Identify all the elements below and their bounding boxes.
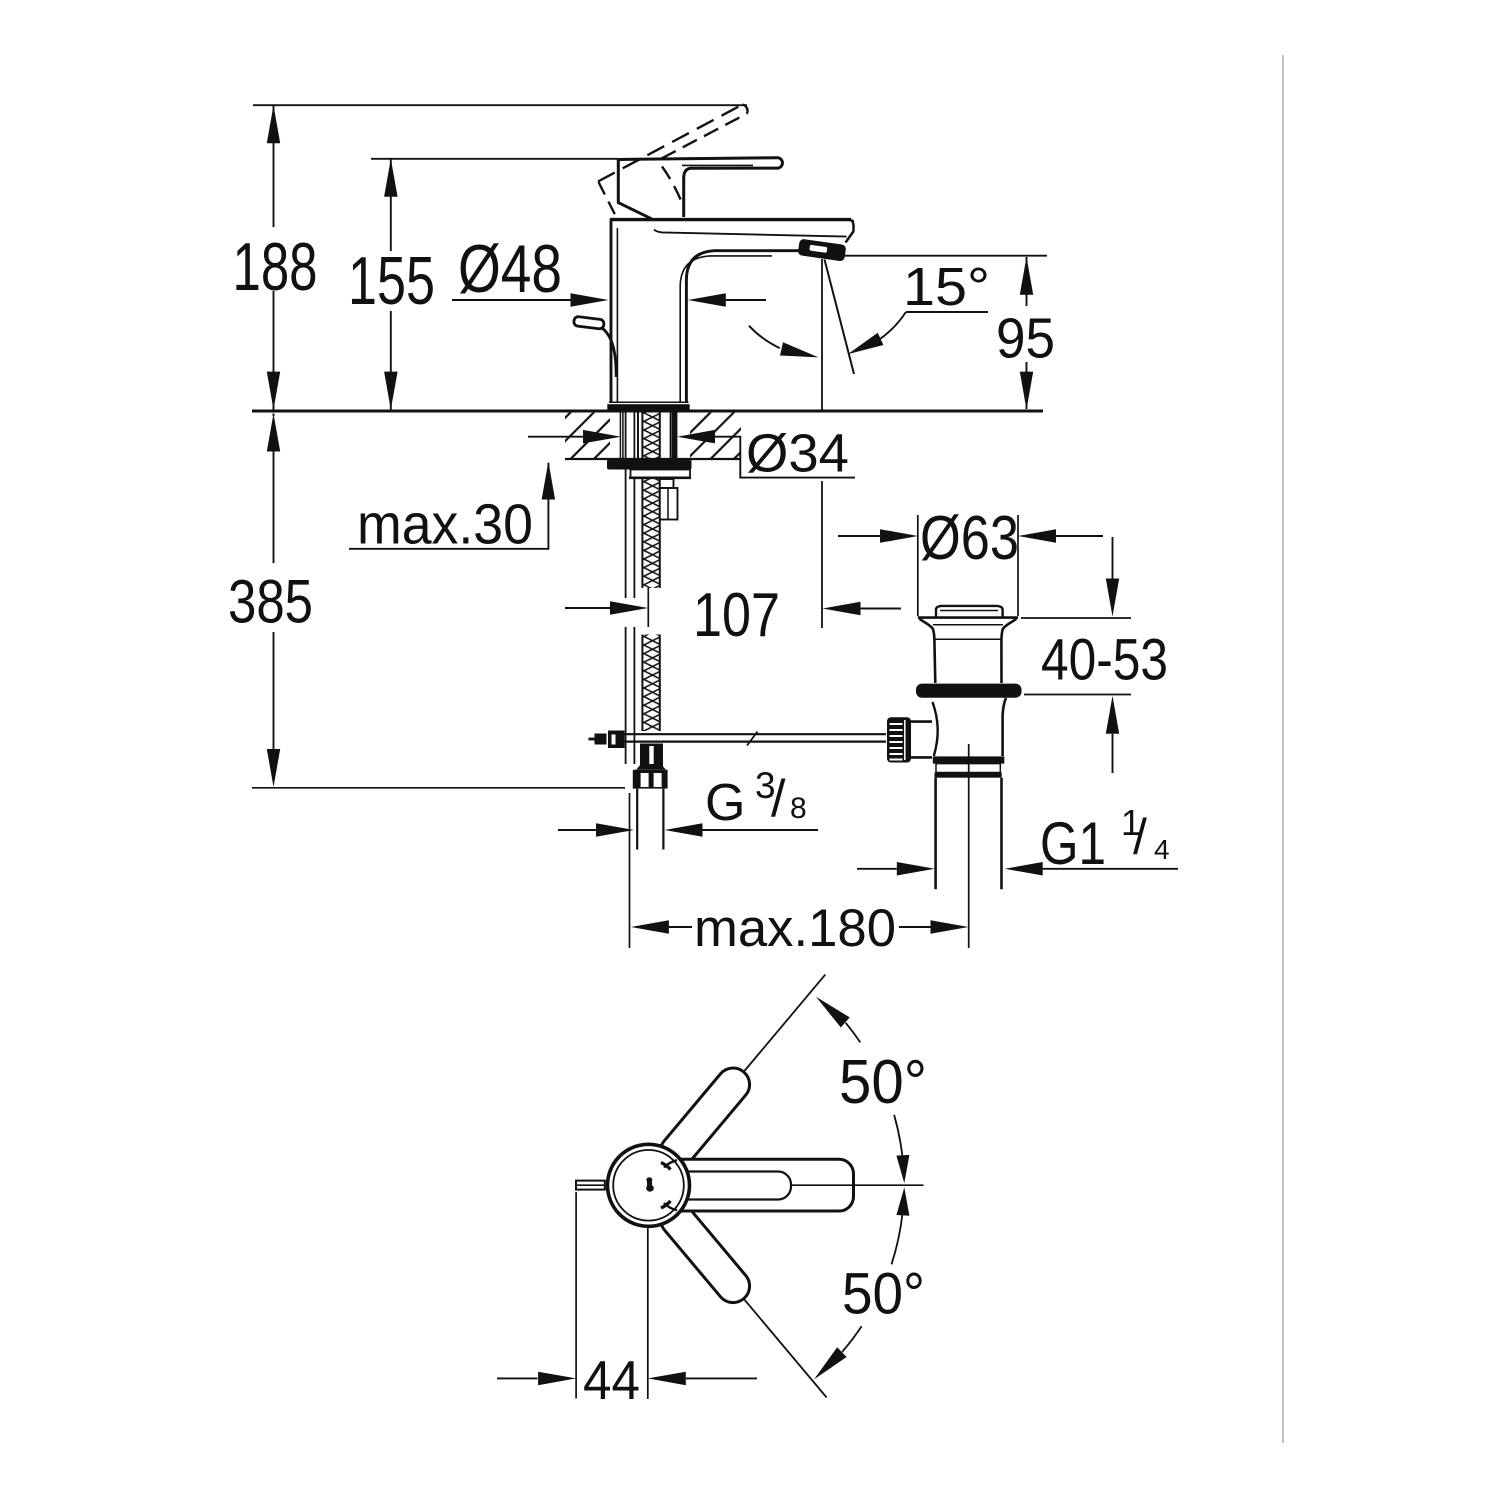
- dimension 95 bottom arrowhead: [1020, 372, 1033, 410]
- spray direction line 15 deg: [825, 260, 855, 375]
- dimension 107 right arrowhead at spray axis: [823, 602, 861, 615]
- svg-text:/: /: [1133, 809, 1147, 865]
- shank right dark bar: [671, 412, 677, 460]
- dimension Ø63 arrows: [838, 535, 880, 537]
- top view: fairing curve lower: [664, 1203, 677, 1210]
- 15 deg arc right arrowhead: [848, 333, 884, 354]
- mounting shank thin lines: [619, 412, 621, 459]
- 44 left arrowhead: [538, 1372, 576, 1386]
- drain joint second dark band: [935, 773, 1002, 778]
- supply pipe lower segment: [625, 627, 627, 764]
- pull-rod stem: [602, 328, 617, 378]
- svg-text:max.180: max.180: [694, 899, 896, 958]
- drain flange top (Ø63): [918, 616, 1018, 619]
- top view: fairing curve upper: [664, 1160, 677, 1167]
- faucet base plinth dark band: [607, 404, 689, 411]
- drain body below O-ring right: [1003, 698, 1006, 756]
- svg-text:44: 44: [583, 1349, 640, 1411]
- svg-text:15°: 15°: [903, 257, 990, 317]
- 50 deg lower arc top arrowhead: [896, 1187, 909, 1215]
- 50 deg upper arc bottom arrowhead: [896, 1155, 909, 1183]
- hose end fitting (dark): [640, 744, 663, 767]
- svg-text:50°: 50°: [842, 1262, 925, 1327]
- Ø63 left arrowhead: [880, 529, 918, 543]
- Ø63 right arrowhead: [1018, 529, 1056, 543]
- svg-text:Ø48: Ø48: [458, 231, 562, 307]
- 50 deg upper arc segment 2: [894, 1115, 902, 1157]
- dimension Ø34 left arrowhead: [583, 430, 621, 444]
- supply pipe upper segment: [625, 411, 627, 598]
- dimension 155 top arrowhead: [384, 159, 398, 197]
- dimension 155 bottom arrowhead: [384, 372, 398, 410]
- G3/8 right arrowhead: [665, 823, 703, 837]
- svg-text:385: 385: [228, 568, 313, 636]
- spray axis vertical line: [821, 259, 823, 411]
- G3/8 left arrowhead: [596, 823, 634, 837]
- svg-text:155: 155: [348, 243, 435, 319]
- drain body side bulge at knob: [933, 702, 938, 756]
- dimension 385 bottom arrowhead: [267, 749, 280, 787]
- raised lever dashed bottom edge: [662, 114, 748, 159]
- svg-text:max.30: max.30: [357, 493, 533, 557]
- svg-text:8: 8: [790, 792, 807, 825]
- svg-text:/: /: [771, 770, 786, 828]
- max.180 right arrowhead: [931, 920, 969, 934]
- knob highlight slot: [904, 720, 906, 760]
- faucet body left inner chamfer line: [616, 228, 618, 402]
- 15 deg arc left segment: [749, 326, 780, 348]
- raised lever dashed top edge: [598, 105, 743, 182]
- spout underside and inner corner: [686, 251, 806, 403]
- dimension Ø34 arrows: [528, 436, 583, 438]
- raised lever dashed front arc: [662, 167, 682, 204]
- top view: handle-body seam dash upper: [661, 1163, 671, 1170]
- counter cross-section hatching right of faucet shank: [690, 413, 741, 459]
- dimension G1 1/4 arrows: [857, 868, 897, 870]
- Ø34 leader: shaft, corner, underline: [715, 437, 855, 478]
- 44 right arrowhead: [648, 1372, 686, 1386]
- counter cross-section hatching left of faucet shank: [565, 413, 610, 459]
- drain bell crease line 1: [933, 624, 1003, 626]
- top view: centerline right segment: [790, 1184, 924, 1186]
- drain axis / internal rod line: [968, 744, 970, 948]
- dimension 44 arrows: [497, 1377, 538, 1379]
- drain bell crease line 2: [934, 638, 1001, 640]
- counter cross-section bottom line: [565, 458, 741, 460]
- drain outlet pipe G1 1/4: [934, 778, 937, 890]
- top view: handle outer contour: [666, 1159, 854, 1211]
- 15 deg arc left arrowhead: [780, 342, 819, 357]
- drain cap inner line: [940, 610, 998, 612]
- G1 1/4 left arrowhead: [897, 862, 935, 876]
- raised lever dashed heel edge: [599, 182, 617, 218]
- 15 deg arc right segment (leader): [879, 312, 906, 339]
- svg-text:40-53: 40-53: [1041, 627, 1168, 692]
- dimension G3/8 arrows: [558, 829, 596, 831]
- svg-text:95: 95: [996, 307, 1055, 371]
- 15 deg label underline: [906, 311, 988, 313]
- top view: 50 deg lower swing ray: [672, 1213, 827, 1398]
- max.180 left extension line (supply axis): [629, 793, 631, 948]
- mounting nut: [631, 470, 691, 478]
- dimension 107 left arrowhead at faucet axis: [610, 601, 648, 615]
- svg-text:4: 4: [1154, 834, 1170, 865]
- hose connection steps right of shank: [660, 479, 674, 488]
- drain lower joint dark band: [933, 756, 1005, 763]
- drain O-ring (dark band): [916, 684, 1022, 698]
- 40-53 upper arrowhead: [1106, 579, 1119, 617]
- faucet base plinth top thin line: [609, 401, 689, 403]
- spout height reference line (95): [814, 255, 1047, 257]
- lever grip and front edge: [618, 158, 782, 217]
- dim reference line top of lever (155): [371, 158, 618, 160]
- top view: handle-body seam dash lower: [661, 1201, 671, 1208]
- dimension Ø34 right arrowhead: [677, 430, 715, 444]
- svg-text:107: 107: [693, 581, 780, 650]
- pull rod break mark: [747, 732, 758, 746]
- drain push cap: [936, 606, 1003, 617]
- pull rod left pin: [589, 738, 595, 741]
- G3/8 connection nut (dark with slots): [633, 770, 668, 789]
- shank right white column line: [669, 412, 671, 459]
- top view: faucet body inner circle: [613, 1150, 684, 1221]
- max.180 left arrowhead: [631, 920, 669, 934]
- dim reference line top of lifted lever (188): [253, 104, 747, 106]
- svg-text:Ø34: Ø34: [746, 423, 849, 483]
- braided hose upper segment: [642, 411, 659, 588]
- drain bell left side: [920, 619, 936, 683]
- drain bell right side: [1001, 619, 1016, 683]
- G3/8 pipe tail: [636, 789, 638, 850]
- top view: handle rotated 50 deg up (outline): [654, 1061, 756, 1174]
- svg-text:Ø63: Ø63: [920, 504, 1019, 573]
- dimension Ø48 right arrowhead: [688, 293, 726, 307]
- dimension 107 arrows: [565, 607, 610, 609]
- knob connector top/bottom lines: [911, 720, 933, 723]
- knob knurl line: [890, 723, 903, 725]
- drain joint white band outline: [936, 764, 1000, 773]
- dimension 95 vertical line: [1026, 257, 1028, 306]
- pop-up waste pull-rod knob: [573, 316, 604, 329]
- 40-53 lower arrowhead: [1106, 696, 1119, 734]
- svg-text:50°: 50°: [839, 1048, 927, 1117]
- svg-text:G: G: [705, 774, 745, 832]
- pull rod left cylinder: [595, 734, 607, 745]
- 50 deg upper arc top arrowhead: [816, 997, 850, 1028]
- 385 bottom reference line (supply connection level): [252, 787, 625, 789]
- dimension 188 bottom arrowhead: [267, 372, 280, 410]
- pull rod left clamp block: [608, 731, 625, 749]
- max.30 label underline and riser: [349, 463, 548, 549]
- svg-text:188: 188: [233, 229, 318, 305]
- 40-53 reference lines: [1021, 617, 1131, 619]
- faucet axis extension tick: [647, 588, 649, 627]
- lever underside thin line: [682, 164, 753, 166]
- pull rod horizontal (to drain valve): [625, 733, 887, 735]
- faucet body left outer edge: [610, 221, 613, 403]
- braided hose lower segment: [642, 635, 659, 732]
- lever body bottom diagonal: [618, 202, 652, 219]
- 50 deg lower arc segment 2: [842, 1326, 861, 1352]
- top view: handle rotated 50 deg down (outline): [654, 1196, 756, 1309]
- hose cone to nut: [636, 764, 666, 770]
- G1 1/4 right arrowhead: [1005, 862, 1043, 876]
- spout shoulder contour line: [654, 230, 847, 237]
- drain valve knurled knob: [887, 717, 911, 762]
- dimension 44 extension lines: [575, 1192, 577, 1399]
- dimension 188 top arrowhead: [267, 105, 280, 143]
- Ø63 extension lines: [917, 515, 919, 616]
- dimension 95 top arrowhead: [1020, 257, 1033, 295]
- 50 deg upper arc segment 1: [846, 1023, 861, 1043]
- dimension 188: vertical dimension line: [273, 105, 275, 227]
- dimension 385 vertical line: [273, 414, 275, 417]
- faucet spout tip bevel: [846, 220, 854, 243]
- raised lever tip cap: [743, 105, 748, 114]
- max.30 arrowhead pointing at counter underside: [542, 462, 556, 500]
- top view: handle inner contour: [672, 1172, 791, 1200]
- top view: faucet body circle: [608, 1144, 690, 1226]
- top view: spout tip tab: [576, 1181, 605, 1190]
- top view: GROHE logo speck: [646, 1177, 652, 1182]
- dimension 385 top arrowhead: [267, 414, 280, 452]
- dimension Ø48: shelf line and arrows: [452, 299, 571, 301]
- page edge separator line: [1282, 55, 1284, 1443]
- mounting washer (dark): [607, 459, 692, 469]
- dimension 40-53 vertical line: [1112, 537, 1114, 579]
- dimension Ø48 left arrowhead: [571, 293, 609, 307]
- faucet top surface: [610, 218, 851, 221]
- svg-text:G1: G1: [1040, 810, 1106, 877]
- dimension 155: vertical dimension line: [390, 159, 392, 251]
- top view: 50 deg upper swing ray: [672, 975, 826, 1158]
- top view: centerline left segment: [576, 1184, 605, 1186]
- 50 deg lower arc bottom arrowhead: [814, 1347, 847, 1379]
- aerator outlet (dark): [798, 239, 847, 262]
- spout underside inner thin line: [680, 256, 772, 402]
- countertop surface line: [252, 410, 1043, 413]
